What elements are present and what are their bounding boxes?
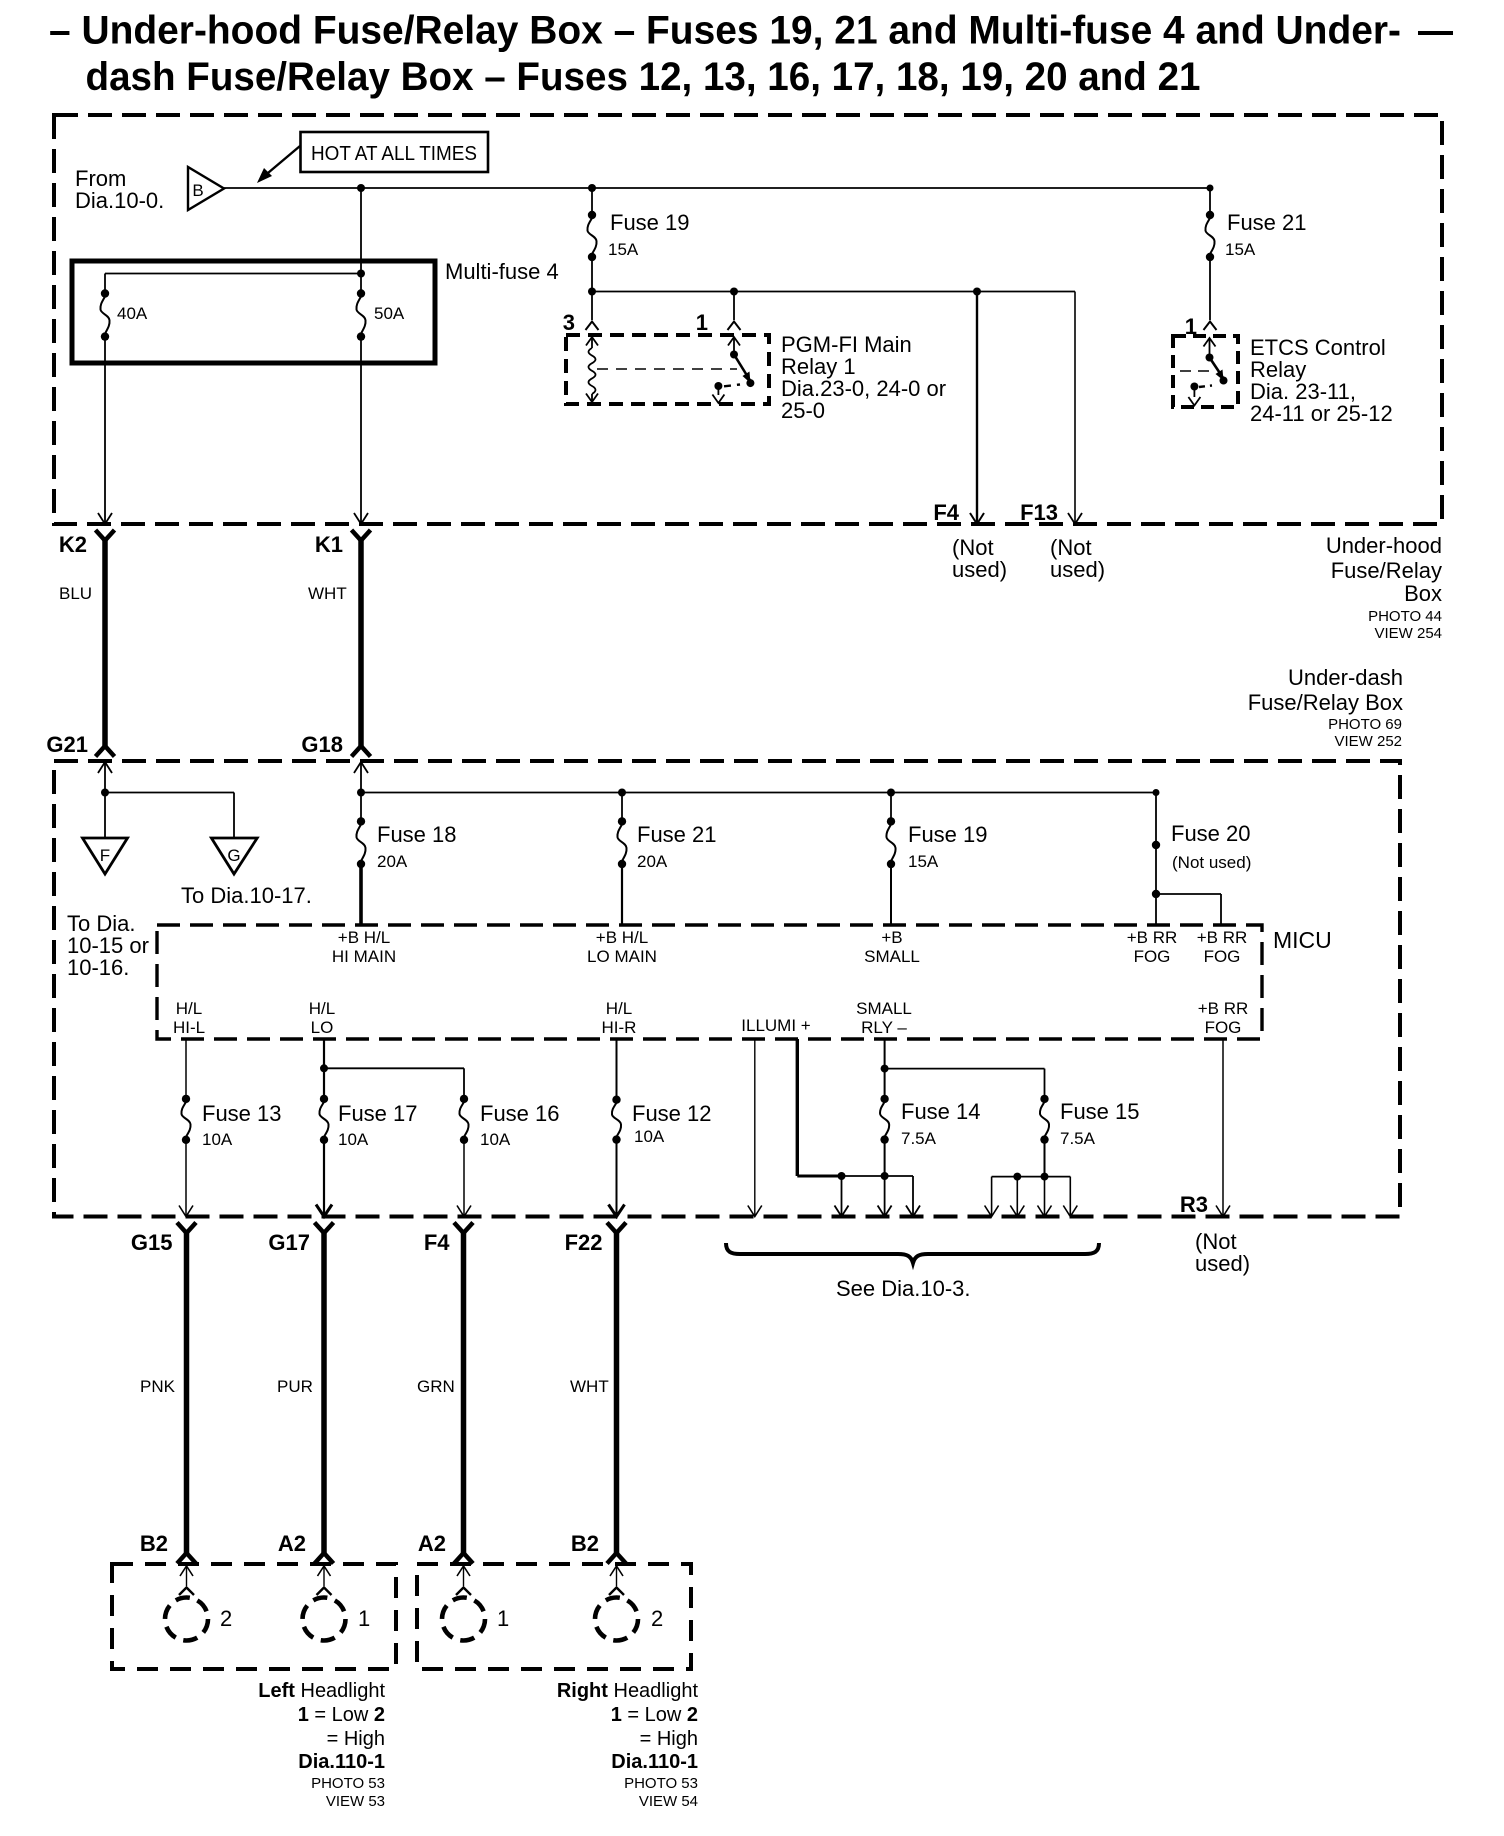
svg-text:B2: B2 (140, 1531, 168, 1556)
svg-text:2: 2 (220, 1606, 232, 1631)
wire fuse20 to MICU pin1 (1155, 894, 1157, 925)
fuse 12 (10A) (612, 1096, 620, 1104)
svg-text:HI-L: HI-L (173, 1018, 205, 1037)
wire ground bus to G triangle (105, 792, 234, 794)
svg-text:PHOTO 53: PHOTO 53 (624, 1775, 698, 1792)
svg-text:Fuse/Relay: Fuse/Relay (1331, 558, 1442, 583)
fuse 14 (7.5A) (880, 1095, 888, 1103)
svg-text:H/L: H/L (309, 999, 335, 1018)
svg-text:1: 1 (696, 310, 708, 335)
svg-text:Fuse 12: Fuse 12 (632, 1101, 712, 1126)
node multi-fuse internal junction (357, 270, 365, 278)
wire main hot bus (224, 187, 1210, 189)
svg-text:B2: B2 (571, 1531, 599, 1556)
svg-text:Fuse 21: Fuse 21 (1227, 210, 1307, 235)
svg-text:PHOTO 53: PHOTO 53 (311, 1775, 385, 1792)
relay ETCS Control Relay (dashed box) (1173, 336, 1238, 407)
wire under-dash fuse bus (361, 792, 1156, 794)
svg-text:—: — (1418, 9, 1453, 53)
fuse 13 (10A) (182, 1095, 190, 1103)
fuse 21 (under-dash 20A) (621, 793, 623, 822)
svg-text:H/L: H/L (606, 999, 632, 1018)
wire F13 drop (not used) (1074, 292, 1076, 524)
svg-text:used): used) (952, 557, 1007, 582)
svg-text:10A: 10A (202, 1130, 233, 1149)
wire fuse19 to MICU (890, 864, 892, 925)
triangle B (from Dia.10-0) (188, 167, 224, 210)
connector K2 (96, 530, 115, 541)
PGM-FI coil (586, 337, 598, 346)
svg-text:Box: Box (1404, 581, 1442, 606)
wire G17 to headlight (321, 1232, 327, 1553)
svg-text:PHOTO 69: PHOTO 69 (1328, 716, 1402, 733)
svg-text:MICU: MICU (1273, 927, 1332, 953)
svg-text:K2: K2 (59, 532, 87, 557)
fuse 16 (10A) (460, 1095, 468, 1103)
node junction at Fuse 19 feed (588, 184, 596, 192)
svg-text:Dia.10-0.: Dia.10-0. (75, 188, 164, 213)
svg-text:10A: 10A (338, 1130, 369, 1149)
svg-text:+B H/L: +B H/L (338, 928, 390, 947)
MICU box (dashed) (157, 925, 1262, 1039)
connector F22 (607, 1223, 626, 1234)
wire 40A drop (104, 274, 106, 294)
connector G21 foot (96, 746, 115, 757)
wire H/L LO to junction (323, 1039, 325, 1068)
svg-text:2: 2 (651, 1606, 663, 1631)
arrow fuse15 out 1 (991, 1177, 993, 1216)
arrow G18 inside (354, 762, 368, 773)
wire ILLUMI+ thin drop (754, 1039, 756, 1216)
svg-text:VIEW 53: VIEW 53 (326, 1793, 385, 1810)
node bus at pin1 (730, 288, 738, 296)
svg-text:Multi-fuse 4: Multi-fuse 4 (445, 259, 559, 284)
PGM-FI link (dashed) (597, 368, 737, 370)
svg-text:dash Fuse/Relay Box – Fuses 12: dash Fuse/Relay Box – Fuses 12, 13, 16, … (86, 55, 1201, 99)
fuse 21 (under-hood 15A) (1209, 188, 1211, 215)
node bus corner at fuse 20 (1153, 789, 1160, 796)
svg-text:7.5A: 7.5A (1060, 1129, 1096, 1148)
svg-text:Fuse 19: Fuse 19 (908, 822, 988, 847)
svg-text:Dia.110-1: Dia.110-1 (298, 1751, 385, 1773)
svg-text:15A: 15A (908, 852, 939, 871)
svg-text:G17: G17 (268, 1230, 310, 1255)
svg-text:= High: = High (640, 1728, 698, 1750)
connector foot at headlight (G17) (315, 1553, 334, 1564)
connector G18 foot (352, 746, 371, 757)
svg-text:F: F (100, 846, 110, 865)
svg-text:SMALL: SMALL (856, 999, 912, 1018)
fuse 17 (10A) (320, 1095, 328, 1103)
ETCS switch common node (1206, 354, 1214, 362)
node bus at fuse 19 (887, 789, 895, 797)
svg-text:7.5A: 7.5A (901, 1129, 937, 1148)
svg-text:– Under-hood Fuse/Relay Box –: – Under-hood Fuse/Relay Box – Fuses 19, … (49, 9, 1401, 53)
svg-text:1 = Low 2: 1 = Low 2 (611, 1704, 698, 1726)
svg-text:FOG: FOG (1204, 947, 1241, 966)
fuse 50A (357, 289, 365, 297)
fuse 19 (under-hood 15A) (591, 188, 593, 215)
svg-text:Fuse 19: Fuse 19 (610, 210, 690, 235)
pin 3 lead PGM-FI (591, 292, 593, 321)
wire branch to fuse 16 (324, 1067, 464, 1069)
svg-text:10-16.: 10-16. (67, 955, 129, 980)
wire fuse19 to relay bus (591, 257, 593, 292)
connector F4 (454, 1223, 473, 1234)
svg-text:Right Headlight: Right Headlight (557, 1680, 699, 1702)
PGM-FI switch pin1 lead (728, 337, 740, 346)
wire fuse15 output bus (992, 1176, 1071, 1178)
right headlight bulb 1 (457, 1566, 470, 1576)
svg-text:Fuse 13: Fuse 13 (202, 1101, 282, 1126)
svg-text:G15: G15 (131, 1230, 173, 1255)
left headlight box (dashed) (112, 1564, 396, 1669)
connector foot at headlight (G15) (177, 1553, 196, 1564)
svg-text:(Not used): (Not used) (1172, 853, 1251, 872)
wire H/L HI-L to fuse 13 (185, 1039, 187, 1099)
svg-text:F4: F4 (933, 500, 959, 525)
svg-text:24-11 or 25-12: 24-11 or 25-12 (1250, 401, 1393, 426)
svg-text:GRN: GRN (417, 1377, 455, 1396)
wire fuse18 to MICU (359, 864, 363, 925)
node fuse17/16 junction (320, 1064, 328, 1072)
wire branch to fuse 15 (885, 1068, 1045, 1070)
arrow K1 at box edge (354, 513, 368, 524)
svg-text:50A: 50A (374, 304, 405, 323)
PGM-FI switch arm (734, 355, 750, 382)
node fuse14/15 junction (881, 1065, 889, 1073)
under-hood fuse/relay box (dashed) (54, 115, 1442, 524)
arrow fuse14 output (884, 1176, 886, 1216)
svg-text:Under-hood: Under-hood (1326, 533, 1442, 558)
svg-text:K1: K1 (315, 532, 343, 557)
connector foot at headlight (F22) (607, 1553, 626, 1564)
wire relay feed bus (592, 291, 1075, 293)
wire fuse17 to G17 (323, 1140, 325, 1216)
svg-text:= High: = High (327, 1728, 385, 1750)
svg-text:Dia.110-1: Dia.110-1 (611, 1751, 698, 1773)
svg-text:used): used) (1195, 1251, 1250, 1276)
wire 50A drop (360, 188, 362, 294)
fuse 20 (not used) (1155, 793, 1157, 895)
wire G15 to headlight (184, 1232, 190, 1553)
fuse 40A (101, 289, 109, 297)
node bus at F4 drop (973, 288, 981, 296)
svg-text:G18: G18 (301, 732, 343, 757)
node bus at fuse 21 (618, 789, 626, 797)
wire fuse21 to MICU (621, 864, 623, 925)
wire ILLUMI+ thick drop (796, 1039, 799, 1176)
wire H/L HI-R to fuse 12 (616, 1039, 618, 1100)
brace see dia 10-3 (726, 1243, 1099, 1263)
wire F22 to headlight (614, 1232, 620, 1553)
svg-text:Fuse 20: Fuse 20 (1171, 821, 1251, 846)
wire illumi bus corner drop (912, 1176, 914, 1216)
wire fuse12 to F22 (616, 1140, 618, 1216)
svg-text:15A: 15A (608, 240, 639, 259)
svg-text:F13: F13 (1020, 500, 1058, 525)
connector foot at headlight (F4) (454, 1553, 473, 1564)
wire fuse20 branch to MICU pin2 (1156, 893, 1221, 895)
svg-text:Fuse/Relay Box: Fuse/Relay Box (1248, 690, 1403, 715)
svg-text:+B RR: +B RR (1197, 928, 1248, 947)
svg-text:1 = Low 2: 1 = Low 2 (298, 1704, 385, 1726)
svg-text:F4: F4 (424, 1230, 450, 1255)
arrow fuse15 out 2 (1016, 1177, 1018, 1216)
multi-fuse 4 box (72, 261, 435, 363)
under-dash fuse/relay box (dashed) (54, 761, 1400, 1217)
svg-text:+B H/L: +B H/L (596, 928, 648, 947)
svg-text:G: G (227, 846, 240, 865)
svg-text:Fuse 14: Fuse 14 (901, 1099, 981, 1124)
wire junction to fuse 17 (323, 1068, 325, 1099)
wire K2 lead in box (104, 337, 106, 523)
svg-text:PHOTO 44: PHOTO 44 (1368, 608, 1442, 625)
svg-text:Left Headlight: Left Headlight (258, 1680, 385, 1702)
node junction at 50A feed (357, 184, 365, 192)
wire multi-fuse internal bus (105, 273, 361, 275)
svg-text:3: 3 (563, 310, 575, 335)
HOT AT ALL TIMES box (301, 132, 489, 172)
ground F triangle (83, 838, 128, 874)
wire F4 drop (not used) (976, 292, 978, 524)
svg-text:Fuse 21: Fuse 21 (637, 822, 717, 847)
right headlight box (dashed) (417, 1564, 691, 1669)
svg-text:F22: F22 (565, 1230, 603, 1255)
pin 1 lead ETCS (1209, 257, 1211, 320)
svg-text:10A: 10A (634, 1127, 665, 1146)
wire junction to fuse 14 (884, 1069, 886, 1099)
svg-text:R3: R3 (1180, 1192, 1208, 1217)
svg-text:HOT AT ALL TIMES: HOT AT ALL TIMES (311, 143, 477, 165)
svg-text:LO: LO (311, 1018, 334, 1037)
svg-text:20A: 20A (377, 852, 408, 871)
svg-text:HI MAIN: HI MAIN (332, 947, 396, 966)
svg-text:Fuse 16: Fuse 16 (480, 1101, 560, 1126)
svg-text:PNK: PNK (140, 1377, 176, 1396)
wire F4 to headlight (461, 1232, 467, 1553)
ground G triangle (211, 838, 257, 874)
svg-text:Under-dash: Under-dash (1288, 665, 1403, 690)
wire fuse13 to G15 (185, 1140, 187, 1216)
svg-text:FOG: FOG (1134, 947, 1171, 966)
svg-text:15A: 15A (1225, 240, 1256, 259)
svg-text:1: 1 (497, 1606, 509, 1631)
relay PGM-FI Main Relay 1 (dashed box) (566, 335, 769, 404)
svg-text:20A: 20A (637, 852, 668, 871)
ETCS switch arm (1210, 358, 1224, 379)
arrow fuse15 out 4 (1069, 1177, 1071, 1216)
svg-text:VIEW 252: VIEW 252 (1334, 733, 1402, 750)
svg-text:Fuse 18: Fuse 18 (377, 822, 457, 847)
svg-text:+B RR: +B RR (1127, 928, 1178, 947)
wire F triangle drop (104, 793, 106, 839)
svg-text:VIEW 54: VIEW 54 (639, 1793, 698, 1810)
arrow F4 into box edge (970, 513, 984, 524)
svg-text:25-0: 25-0 (781, 398, 825, 423)
wire fuse14 down (884, 1140, 886, 1176)
left headlight bulb 1 (318, 1566, 331, 1576)
arrow F13 into box edge (1068, 513, 1082, 524)
ETCS link (dashed) (1180, 370, 1216, 372)
arrow G21 inside (98, 762, 112, 773)
svg-text:FOG: FOG (1205, 1018, 1242, 1037)
svg-text:Fuse 15: Fuse 15 (1060, 1099, 1140, 1124)
node illumi branch junction (838, 1172, 846, 1180)
svg-text:BLU: BLU (59, 584, 92, 603)
svg-text:40A: 40A (117, 304, 148, 323)
svg-text:ILLUMI +: ILLUMI + (741, 1016, 811, 1035)
node fuse15 output junction (1041, 1173, 1049, 1181)
pin 1 lead PGM-FI (733, 292, 735, 321)
svg-text:RLY –: RLY – (861, 1018, 907, 1037)
svg-text:WHT: WHT (308, 584, 347, 603)
PGM-FI switch common node (730, 351, 738, 359)
arrow from HOT AT ALL TIMES to wire (262, 146, 300, 178)
svg-text:A2: A2 (418, 1531, 446, 1556)
svg-text:See Dia.10-3.: See Dia.10-3. (836, 1276, 971, 1301)
fuse 15 (7.5A) (1040, 1095, 1048, 1103)
svg-text:G21: G21 (46, 732, 88, 757)
svg-text:1: 1 (358, 1606, 370, 1631)
arrow fuse15 out 3 (1044, 1177, 1046, 1216)
svg-text:To Dia.10-17.: To Dia.10-17. (181, 883, 312, 908)
svg-text:+B RR: +B RR (1198, 999, 1249, 1018)
PGM-FI output contact (714, 382, 722, 390)
svg-text:LO MAIN: LO MAIN (587, 947, 657, 966)
svg-text:PUR: PUR (277, 1377, 313, 1396)
svg-text:HI-R: HI-R (602, 1018, 637, 1037)
right headlight bulb 2 (610, 1566, 623, 1576)
wire SMALL RLY to junction (884, 1039, 886, 1069)
svg-text:10A: 10A (480, 1130, 511, 1149)
node fuse14 output junction (881, 1172, 889, 1180)
node G21 ground junction (101, 789, 109, 797)
wire K2-G21 (BLU) (102, 539, 108, 746)
svg-text:A2: A2 (278, 1531, 306, 1556)
node G18 bus junction (357, 789, 365, 797)
wire illumi branch bus (842, 1175, 914, 1177)
arrow K2 at box edge (98, 513, 112, 524)
svg-text:used): used) (1050, 557, 1105, 582)
svg-text:SMALL: SMALL (864, 947, 920, 966)
wire K1-G18 (WHT) (358, 539, 364, 746)
node bus at pin3 (588, 288, 596, 296)
arrow illumi branch 1 (841, 1176, 843, 1216)
node fuse15 bus junction (1013, 1173, 1021, 1181)
left headlight bulb 2 (180, 1566, 193, 1576)
wire fuse16 to F4 (463, 1140, 465, 1216)
connector K1 (352, 530, 371, 541)
svg-text:VIEW 254: VIEW 254 (1374, 625, 1442, 642)
ETCS switch pin1 lead (1204, 338, 1216, 347)
svg-text:H/L: H/L (176, 999, 202, 1018)
wire G triangle drop (233, 793, 235, 839)
svg-text:B: B (192, 181, 203, 200)
connector G17 (315, 1223, 334, 1234)
wire fuse15 down (1044, 1140, 1046, 1177)
wire K1 lead in box (360, 337, 362, 523)
svg-text:+B: +B (881, 928, 902, 947)
svg-text:Fuse 17: Fuse 17 (338, 1101, 418, 1126)
ETCS output contact (1190, 383, 1198, 391)
connector G15 (177, 1223, 196, 1234)
wire +B RR FOG to R3 (1222, 1039, 1224, 1216)
node corner at Fuse 21 feed (1207, 185, 1214, 192)
fuse 18 (20A) (360, 793, 362, 822)
fuse 19 (under-dash 15A) (890, 793, 892, 822)
svg-text:WHT: WHT (570, 1377, 609, 1396)
